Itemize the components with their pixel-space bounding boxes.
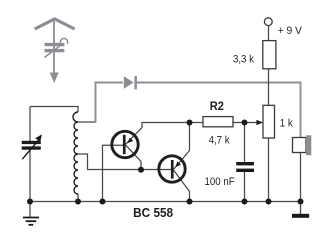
svg-text:BC 558: BC 558 — [133, 205, 173, 220]
svg-text:1 k: 1 k — [280, 118, 294, 130]
svg-text:3,3 k: 3,3 k — [233, 54, 255, 66]
svg-text:100 nF: 100 nF — [205, 177, 235, 189]
svg-text:+ 9 V: + 9 V — [278, 24, 303, 36]
svg-text:4,7 k: 4,7 k — [209, 135, 231, 147]
svg-text:R2: R2 — [210, 101, 224, 113]
